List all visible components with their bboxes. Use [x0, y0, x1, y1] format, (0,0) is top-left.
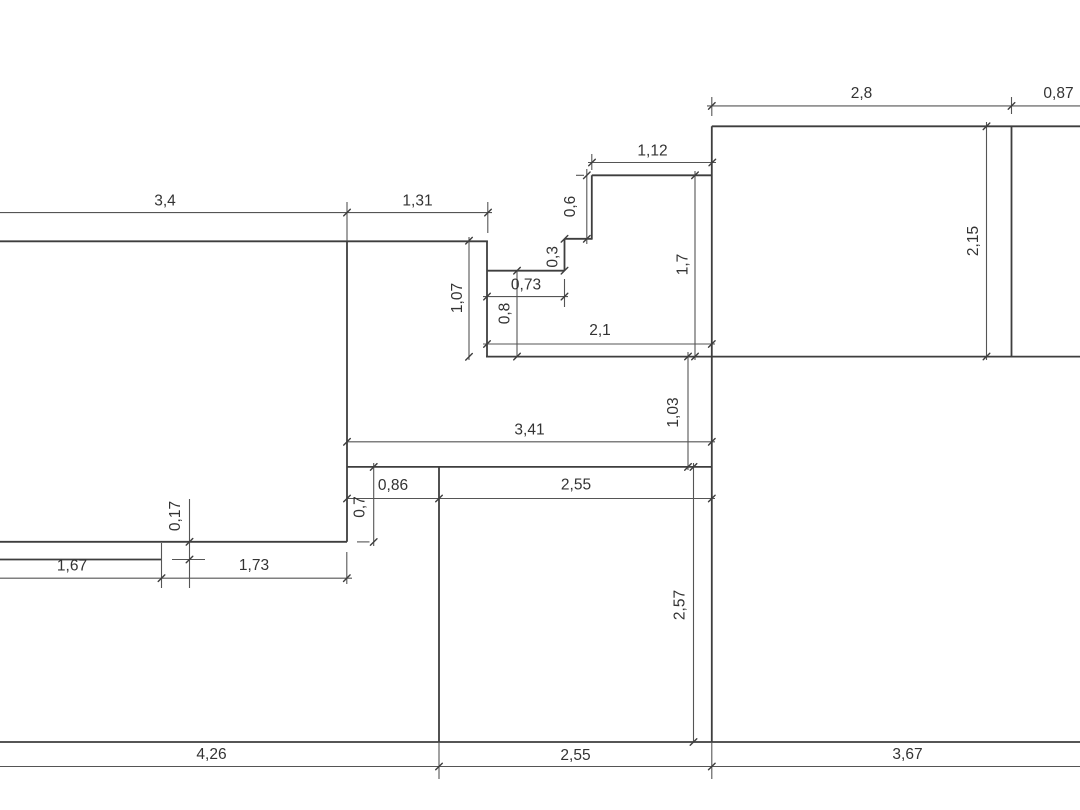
svg-text:3,67: 3,67 — [892, 746, 922, 763]
wall horizontal y=466.9 — [347, 466, 712, 468]
tick 0,6 bottom — [584, 236, 591, 243]
wall vertical x=347 — [346, 241, 348, 542]
tick 0,73 right — [561, 293, 568, 300]
svg-text:1,7: 1,7 — [675, 254, 692, 276]
svg-text:1,07: 1,07 — [449, 283, 466, 313]
wall step vertical 0,3 — [564, 239, 566, 271]
tick 2,15 top — [983, 123, 990, 130]
svg-text:3,4: 3,4 — [154, 193, 176, 210]
svg-text:0,87: 0,87 — [1043, 85, 1073, 102]
tick bottom x439 — [436, 763, 443, 770]
tick 0,8 top — [514, 267, 521, 274]
svg-text:0,73: 0,73 — [511, 277, 541, 294]
svg-text:2,55: 2,55 — [560, 747, 590, 764]
tick 0,86/2,55 x439 — [436, 495, 443, 502]
svg-text:0,17: 0,17 — [167, 501, 184, 531]
tick 0,73 left — [484, 293, 491, 300]
dim line 1,07 — [468, 237, 470, 360]
tick 2,1 right — [709, 341, 716, 348]
tick 1,03 bottom — [685, 464, 692, 471]
tick 1,7 top — [692, 172, 699, 179]
tick 2,57 top — [690, 464, 697, 471]
extension line x=564.5 below step for 0,73 — [564, 279, 566, 307]
tick 1,12 left — [589, 159, 596, 166]
extension x=439 below bottom wall — [438, 742, 440, 779]
extension x=346.8 below wall for 1,73 — [346, 552, 348, 584]
dim line 2,15 — [986, 122, 988, 360]
extension line x=487.5 for 1,31 — [487, 202, 489, 233]
tick 0,17 bottom — [186, 556, 193, 563]
svg-text:1,03: 1,03 — [665, 397, 682, 427]
wall step bottom y=270.7 — [487, 270, 565, 272]
dim line 1,12 — [588, 162, 716, 164]
svg-text:1,73: 1,73 — [239, 557, 269, 574]
tick 0,8 bottom — [514, 353, 521, 360]
tick 2,55 right — [709, 495, 716, 502]
tick 3,41 left — [344, 439, 351, 446]
extension line x=1011.5 above top wall — [1011, 97, 1013, 114]
dim line 0,7 — [373, 463, 375, 546]
svg-text:0,7: 0,7 — [352, 496, 369, 518]
svg-text:1,12: 1,12 — [637, 143, 667, 160]
svg-text:3,41: 3,41 — [514, 421, 544, 438]
dim line 0,17 — [189, 499, 191, 588]
tick 2,8/0,87 — [1008, 103, 1015, 110]
extension x=161.5 for 1,67/1,73 — [161, 543, 163, 588]
wall top-right horizontal y=126.3 — [712, 125, 1080, 127]
svg-text:0,6: 0,6 — [562, 196, 579, 218]
dim line 2,1 — [483, 343, 715, 345]
dim line 1,03 — [687, 352, 689, 470]
dim line 0,6 — [586, 169, 588, 244]
wall horizontal y=541.8 — [0, 541, 347, 543]
tick 0,7 bottom — [370, 539, 377, 546]
extension line x=347 above wall — [346, 202, 348, 241]
extension horizontal for 0,7 bottom — [357, 541, 370, 543]
svg-text:2,8: 2,8 — [851, 85, 873, 102]
tick 1,31 end — [485, 209, 492, 216]
svg-text:0,3: 0,3 — [545, 246, 562, 268]
tick 1,7 bottom — [692, 353, 699, 360]
tick bottom x711 — [709, 763, 716, 770]
tick 0,86 left — [344, 495, 351, 502]
wall long vertical x=711.8 — [711, 126, 713, 742]
tick 0,3 top — [561, 236, 568, 243]
wall step top y=175.3 — [592, 174, 712, 176]
extension horizontal y=559.5 for 0,17 — [172, 559, 205, 561]
tick 1,03 top — [685, 353, 692, 360]
wall long horizontal y=356.6 — [486, 356, 1080, 358]
extension horizontal for 0,6 top — [576, 174, 584, 176]
tick 0,7 top — [370, 464, 377, 471]
svg-text:2,55: 2,55 — [561, 477, 591, 494]
tick 2,57 bottom — [690, 739, 697, 746]
tick 2,15 bottom — [983, 353, 990, 360]
dim line 3,41 — [347, 441, 715, 443]
svg-text:2,1: 2,1 — [589, 322, 611, 339]
tick 0,3 bottom — [561, 267, 568, 274]
dim line 1,67 / 1,73 — [0, 577, 352, 579]
tick 3,41 right — [709, 439, 716, 446]
tick 3,4/1,31 x347 — [344, 209, 351, 216]
wall step vertical 0,6 — [591, 175, 593, 239]
dim line 0,8 — [516, 271, 518, 357]
svg-text:0,8: 0,8 — [497, 303, 514, 325]
dim line 2,57 — [693, 463, 695, 742]
tick 1,12 right — [709, 159, 716, 166]
tick 0,17 top — [186, 539, 193, 546]
tick 1,67/1,73 x161 — [158, 575, 165, 582]
wall step horizontal y=238.8 — [565, 238, 592, 240]
wall bottom horizontal y=742 — [0, 741, 1080, 743]
dim line bottom 4,26 / 2,55 / 3,67 — [0, 766, 1080, 768]
tick 2,8 left — [709, 103, 716, 110]
wall horizontal y=559.5 — [0, 559, 162, 561]
wall vertical x=1011.5 — [1011, 126, 1013, 356]
tick 1,07 top — [466, 237, 473, 244]
svg-text:1,67: 1,67 — [57, 558, 87, 575]
extension x=711.8 below bottom wall — [711, 742, 713, 779]
dim line 2,8 / 0,87 — [707, 105, 1080, 107]
wall top-left horizontal — [0, 240, 488, 242]
tick 0,6 top — [584, 172, 591, 179]
svg-text:1,31: 1,31 — [402, 193, 432, 210]
dim line 0,86 / 2,55 — [347, 498, 715, 500]
svg-text:0,86: 0,86 — [378, 477, 408, 494]
dim line 1,7 — [694, 171, 696, 360]
dim line 3,4 / 1,31 — [0, 212, 492, 214]
extension line x=592 for 1,12 — [591, 154, 593, 170]
svg-text:4,26: 4,26 — [196, 746, 226, 763]
tick 1,73 right — [344, 575, 351, 582]
wall vertical x=439 — [438, 467, 440, 742]
tick 1,07 bottom — [466, 354, 473, 361]
dim line 0,73 — [483, 296, 568, 298]
wall vertical at x=487 — [486, 241, 488, 357]
svg-text:2,57: 2,57 — [672, 590, 689, 620]
extension line x=711.8 above top wall — [711, 97, 713, 116]
svg-text:2,15: 2,15 — [965, 226, 982, 256]
tick 2,1 left — [484, 341, 491, 348]
